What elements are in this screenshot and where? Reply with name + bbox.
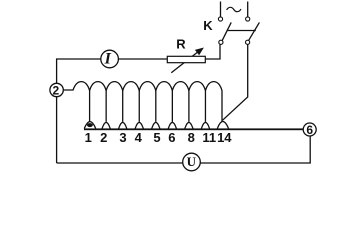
svg-text:I: I bbox=[104, 51, 112, 68]
svg-text:K: K bbox=[203, 18, 213, 33]
svg-text:6: 6 bbox=[168, 130, 175, 145]
svg-text:11: 11 bbox=[202, 130, 216, 145]
svg-text:U: U bbox=[187, 154, 197, 169]
svg-text:4: 4 bbox=[135, 130, 143, 145]
svg-text:14: 14 bbox=[217, 130, 232, 145]
svg-text:5: 5 bbox=[153, 130, 160, 145]
svg-text:2: 2 bbox=[53, 83, 60, 97]
svg-text:2: 2 bbox=[100, 130, 107, 145]
svg-text:R: R bbox=[176, 36, 186, 51]
svg-text:8: 8 bbox=[188, 130, 195, 145]
svg-text:3: 3 bbox=[119, 130, 126, 145]
svg-text:6: 6 bbox=[306, 123, 313, 137]
svg-text:1: 1 bbox=[85, 130, 92, 145]
